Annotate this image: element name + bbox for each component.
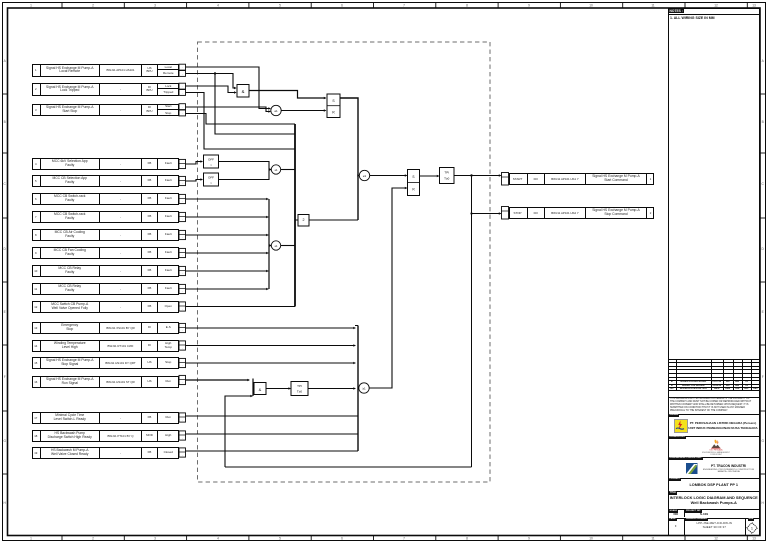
svg-text:·: · [182, 112, 183, 116]
svg-text:T≥0: T≥0 [444, 176, 449, 180]
svg-text:&: & [242, 89, 245, 94]
svg-text:≥1: ≥1 [362, 387, 366, 391]
svg-text:TPI: TPI [444, 171, 449, 175]
svg-text:·: · [182, 418, 183, 422]
svg-text:·: · [182, 307, 183, 311]
svg-text:·: · [182, 328, 183, 332]
svg-text:·: · [182, 105, 183, 109]
svg-text:OFF: OFF [208, 176, 214, 180]
svg-text:≥1: ≥1 [274, 168, 278, 172]
svg-text:·: · [182, 72, 183, 76]
svg-text:·: · [182, 217, 183, 221]
svg-text:·: · [182, 91, 183, 95]
svg-text:·: · [182, 66, 183, 70]
svg-text:2: 2 [303, 218, 305, 222]
svg-text:T≥0: T≥0 [297, 390, 302, 394]
svg-text:·: · [182, 453, 183, 457]
svg-text:·: · [182, 253, 183, 257]
svg-text:·: · [182, 436, 183, 440]
svg-text:·: · [182, 346, 183, 350]
svg-text:·: · [182, 164, 183, 168]
svg-text:·: · [182, 199, 183, 203]
svg-text:&: & [259, 387, 262, 392]
svg-text:·: · [182, 363, 183, 367]
svg-text:≥1: ≥1 [363, 174, 367, 178]
svg-text:·: · [182, 235, 183, 239]
svg-text:·: · [182, 85, 183, 89]
svg-text:OFF: OFF [208, 158, 214, 162]
svg-text:1: 1 [751, 526, 753, 530]
svg-text:·: · [182, 380, 183, 384]
svg-text:·: · [182, 181, 183, 185]
svg-text:≥1: ≥1 [274, 109, 278, 113]
svg-text:·: · [182, 271, 183, 275]
svg-text:·: · [182, 289, 183, 293]
svg-text:TPI: TPI [297, 384, 302, 388]
svg-text:≥1: ≥1 [274, 244, 278, 248]
svg-text:S: S [412, 175, 414, 179]
